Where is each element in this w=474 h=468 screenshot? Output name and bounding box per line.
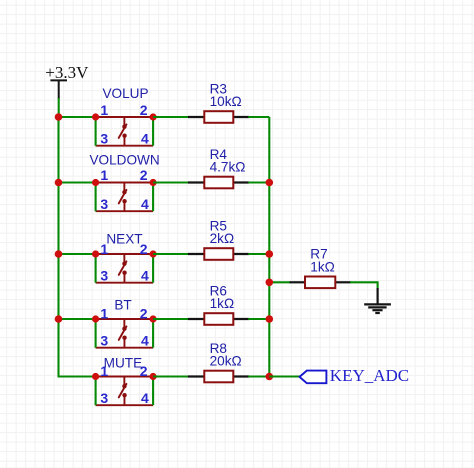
- wire right bus to R7: [269, 281, 290, 283]
- svg-text:VOLUP: VOLUP: [102, 86, 148, 101]
- resistor R5: [188, 248, 249, 260]
- wire BT pin 2 to pin 4: [152, 319, 154, 348]
- wire BT pin 1 to pin 3: [95, 319, 97, 348]
- svg-text:KEY_ADC: KEY_ADC: [330, 366, 409, 385]
- junction right bus at MUTE row: [266, 373, 274, 381]
- push button NEXT: [96, 254, 154, 283]
- push button VOLDOWN: [96, 183, 154, 212]
- wire R5 to right bus: [248, 253, 269, 255]
- net flag KEY_ADC: [300, 366, 410, 385]
- junction pin 1 of BT: [92, 315, 99, 322]
- resistor R6: [188, 313, 249, 325]
- svg-text:4: 4: [141, 196, 149, 212]
- junction left rail at VOLDOWN row: [55, 179, 63, 187]
- junction pin 1 of MUTE: [92, 373, 99, 380]
- svg-text:2: 2: [140, 167, 148, 183]
- wire power stem to rail: [58, 98, 60, 117]
- junction right bus at NEXT row: [266, 250, 274, 258]
- svg-text:3: 3: [100, 390, 108, 406]
- resistor R8: [188, 371, 249, 383]
- pin numbers 1 2 3 4 of BT: [100, 305, 149, 348]
- svg-text:1kΩ: 1kΩ: [310, 260, 335, 275]
- svg-text:3: 3: [100, 196, 108, 212]
- resistor R3: [188, 111, 249, 123]
- pin numbers 1 2 3 4 of NEXT: [100, 241, 149, 284]
- wire NEXT pin 1 to pin 3: [95, 254, 97, 283]
- svg-text:1: 1: [100, 102, 108, 118]
- svg-text:2: 2: [140, 305, 148, 321]
- wire R8 to right bus: [248, 375, 269, 377]
- svg-text:4: 4: [141, 390, 149, 406]
- power symbol +3.3V: [45, 63, 89, 99]
- wire rail to BT pin 1: [59, 318, 96, 320]
- pin numbers 1 2 3 4 of VOLDOWN: [100, 167, 149, 212]
- wire MUTE pin 2 to R8: [153, 375, 189, 377]
- junction pin 1 of NEXT: [92, 250, 99, 257]
- junction pin 2 of VOLDOWN: [150, 179, 157, 186]
- wire VOLUP pin 2 to pin 4: [152, 117, 154, 146]
- wire R7 to ground corner: [350, 281, 378, 289]
- wire MUTE pin 2 to pin 4: [152, 377, 154, 406]
- junction pin 2 of NEXT: [150, 250, 157, 257]
- junction pin 1 of VOLUP: [92, 113, 99, 120]
- junction pin 2 of MUTE: [150, 373, 157, 380]
- wire VOLDOWN pin 1 to pin 3: [95, 183, 97, 212]
- svg-text:NEXT: NEXT: [106, 231, 142, 246]
- svg-text:10kΩ: 10kΩ: [210, 94, 242, 109]
- svg-text:+3.3V: +3.3V: [45, 63, 89, 82]
- ground: [364, 288, 391, 313]
- pin numbers 1 2 3 4 of VOLUP: [100, 102, 149, 147]
- svg-text:1: 1: [100, 305, 108, 321]
- svg-text:3: 3: [100, 131, 108, 147]
- wire R6 to right bus: [248, 318, 269, 320]
- wire rail to VOLUP pin 1: [59, 116, 96, 118]
- svg-text:MUTE: MUTE: [104, 355, 143, 370]
- wire VOLDOWN pin 2 to pin 4: [152, 183, 154, 212]
- junction left rail at VOLUP row: [55, 113, 63, 121]
- wire BT pin 2 to R6: [153, 318, 189, 320]
- svg-text:BT: BT: [114, 298, 131, 313]
- wire VOLUP pin 2 to R3: [153, 116, 189, 118]
- wire left rail bottom corner to MUTE pin 1: [58, 375, 96, 377]
- wire R3 to right bus: [248, 116, 269, 118]
- svg-text:1: 1: [100, 167, 108, 183]
- wire rail to NEXT pin 1: [59, 253, 96, 255]
- svg-text:1kΩ: 1kΩ: [210, 296, 235, 311]
- wire MUTE pin 1 to pin 3: [95, 377, 97, 406]
- wire VOLDOWN pin 2 to R4: [153, 181, 189, 183]
- wire NEXT pin 2 to pin 4: [152, 254, 154, 283]
- junction right bus at R7 branch: [266, 279, 274, 287]
- pin numbers 1 2 3 4 of MUTE: [100, 363, 149, 406]
- wire rail to VOLDOWN pin 1: [59, 181, 96, 183]
- junction left rail at BT row: [55, 315, 63, 323]
- wire left +3.3V rail vertical: [57, 117, 59, 377]
- svg-text:4.7kΩ: 4.7kΩ: [210, 160, 246, 175]
- wire NEXT pin 2 to R5: [153, 253, 189, 255]
- resistor R4: [188, 177, 249, 189]
- push button BT: [96, 319, 154, 348]
- resistor R7: [290, 277, 351, 289]
- svg-text:2: 2: [140, 102, 148, 118]
- svg-text:4: 4: [141, 333, 149, 349]
- junction pin 2 of BT: [150, 315, 157, 322]
- junction left rail at NEXT row: [55, 250, 63, 258]
- svg-text:2kΩ: 2kΩ: [210, 231, 235, 246]
- svg-text:3: 3: [100, 268, 108, 284]
- junction pin 2 of VOLUP: [150, 113, 157, 120]
- junction pin 1 of VOLDOWN: [92, 179, 99, 186]
- wire right bus to KEY_ADC flag: [269, 375, 300, 377]
- junction right bus at VOLDOWN row: [266, 179, 274, 187]
- svg-text:4: 4: [141, 268, 149, 284]
- svg-text:4: 4: [141, 131, 149, 147]
- svg-text:3: 3: [100, 333, 108, 349]
- push button MUTE: [96, 377, 154, 406]
- wire right bus vertical (R3 out to KEY_ADC row): [268, 117, 270, 377]
- push button VOLUP: [96, 117, 154, 146]
- wire VOLUP pin 1 to pin 3: [95, 117, 97, 146]
- svg-text:VOLDOWN: VOLDOWN: [89, 152, 159, 167]
- junction right bus at BT row: [266, 315, 274, 323]
- svg-text:20kΩ: 20kΩ: [210, 354, 242, 369]
- wire R4 to right bus: [248, 181, 269, 183]
